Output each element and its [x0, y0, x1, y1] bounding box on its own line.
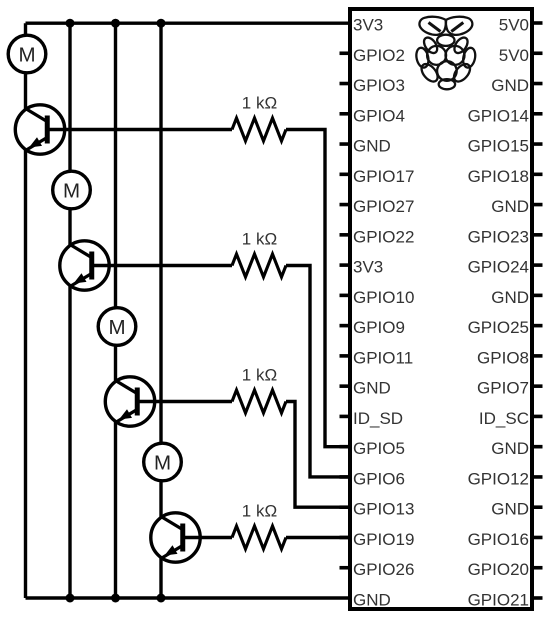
svg-text:GPIO23: GPIO23: [468, 227, 529, 246]
svg-text:GPIO17: GPIO17: [353, 167, 414, 186]
svg-text:GPIO14: GPIO14: [468, 106, 529, 125]
svg-text:GPIO10: GPIO10: [353, 288, 414, 307]
svg-text:GPIO11: GPIO11: [353, 348, 413, 367]
svg-text:GPIO6: GPIO6: [353, 469, 405, 488]
svg-text:GND: GND: [491, 76, 529, 95]
svg-text:GND: GND: [353, 137, 391, 156]
svg-text:GPIO24: GPIO24: [468, 258, 529, 277]
svg-text:GPIO21: GPIO21: [468, 590, 529, 609]
svg-text:3V3: 3V3: [353, 258, 383, 277]
svg-text:ID_SD: ID_SD: [353, 409, 403, 428]
svg-text:GPIO2: GPIO2: [353, 46, 405, 65]
svg-text:1 kΩ: 1 kΩ: [242, 230, 277, 249]
svg-text:M: M: [63, 179, 80, 202]
svg-text:GND: GND: [491, 288, 529, 307]
svg-text:5V0: 5V0: [499, 16, 529, 35]
svg-text:GPIO4: GPIO4: [353, 106, 405, 125]
svg-text:GPIO26: GPIO26: [353, 560, 414, 579]
svg-text:5V0: 5V0: [499, 46, 529, 65]
svg-text:1 kΩ: 1 kΩ: [242, 366, 277, 385]
svg-text:GPIO20: GPIO20: [468, 560, 529, 579]
svg-text:GPIO27: GPIO27: [353, 197, 414, 216]
svg-text:GPIO12: GPIO12: [468, 469, 529, 488]
svg-text:GPIO9: GPIO9: [353, 318, 405, 337]
svg-text:GND: GND: [353, 379, 391, 398]
svg-text:GPIO15: GPIO15: [468, 137, 529, 156]
svg-text:GPIO8: GPIO8: [477, 348, 529, 367]
svg-text:GND: GND: [353, 590, 391, 609]
svg-text:1 kΩ: 1 kΩ: [242, 502, 277, 521]
svg-text:GND: GND: [491, 439, 529, 458]
svg-text:GPIO18: GPIO18: [468, 167, 529, 186]
svg-text:GPIO13: GPIO13: [353, 500, 414, 519]
svg-text:GPIO16: GPIO16: [468, 530, 529, 549]
svg-text:M: M: [154, 451, 171, 474]
svg-text:1 kΩ: 1 kΩ: [242, 94, 277, 113]
svg-text:GPIO19: GPIO19: [353, 530, 414, 549]
svg-text:GPIO25: GPIO25: [468, 318, 529, 337]
svg-text:GPIO5: GPIO5: [353, 439, 405, 458]
svg-text:GND: GND: [491, 500, 529, 519]
svg-text:GPIO22: GPIO22: [353, 227, 414, 246]
svg-text:M: M: [18, 43, 35, 66]
svg-text:M: M: [108, 316, 125, 339]
svg-text:GPIO3: GPIO3: [353, 76, 405, 95]
svg-text:3V3: 3V3: [353, 16, 383, 35]
svg-text:GPIO7: GPIO7: [477, 379, 529, 398]
svg-text:GND: GND: [491, 197, 529, 216]
svg-text:ID_SC: ID_SC: [479, 409, 529, 428]
